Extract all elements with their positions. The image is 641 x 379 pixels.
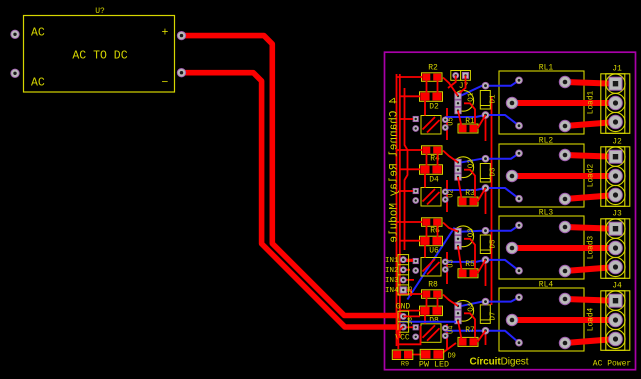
- wire long vertical trace 2: [399, 74, 401, 338]
- via RL1 coil pin bottom: [516, 122, 523, 129]
- pad J4 pin3: [609, 332, 623, 346]
- svg-text:D3: D3: [490, 167, 498, 177]
- wire cluster traces channel 4: [397, 294, 486, 342]
- wire thick trace RL1 COM to J1 pin2: [512, 100, 616, 106]
- pad Q2 emitter: [455, 174, 461, 180]
- wire blue coil trace top channel 3: [460, 225, 520, 232]
- via RL3 coil pin bottom: [516, 267, 523, 274]
- pad optocoupler pin right bottom: [442, 333, 448, 339]
- svg-text:R6: R6: [430, 227, 440, 236]
- pad RL2 NO contact: [559, 149, 570, 160]
- svg-text:J4: J4: [612, 282, 622, 291]
- svg-text:D7: D7: [490, 311, 498, 320]
- wire thick trace RL3 COM to J3 pin2: [512, 245, 616, 251]
- pad J6 VCC: [400, 324, 406, 330]
- relay RL1 outline: [499, 71, 584, 134]
- svg-text:AC TO DC: AC TO DC: [72, 50, 127, 63]
- svg-text:PW LED: PW LED: [419, 360, 449, 370]
- pad J2 pin1 square: [609, 150, 622, 163]
- pad optocoupler pin right top: [442, 189, 448, 195]
- svg-text:RL1: RL1: [539, 64, 554, 73]
- pad J3 pin2: [609, 241, 623, 255]
- svg-text:GND: GND: [396, 303, 411, 312]
- optocoupler IC channel 3: [421, 258, 441, 277]
- relay RL2 outline: [499, 144, 584, 207]
- wire red from via to transistor channel 4: [485, 331, 487, 345]
- svg-text:U5: U5: [448, 117, 456, 125]
- wire blue coil trace bottom channel 2: [445, 188, 519, 199]
- via RL2 coil pin top: [516, 150, 523, 157]
- wire long vertical trace 1: [396, 74, 398, 346]
- via D1 anode: [482, 82, 489, 89]
- wire thick trace RL2 COM to J2 pin2: [512, 173, 616, 179]
- pad optocoupler pin left bottom: [413, 198, 419, 204]
- svg-text:Load4: Load4: [588, 307, 596, 331]
- svg-text:D1: D1: [490, 94, 498, 104]
- svg-text:U4: U4: [448, 326, 456, 334]
- diode D7 outline: [480, 305, 490, 324]
- svg-text:R8: R8: [428, 281, 438, 290]
- svg-text:J3: J3: [612, 210, 622, 219]
- svg-text:R2: R2: [428, 64, 438, 73]
- svg-text:Q2: Q2: [468, 159, 476, 168]
- svg-text:J5: J5: [407, 286, 414, 294]
- pad RL2 COM contact: [506, 170, 517, 181]
- pad RL2 NC contact: [559, 193, 570, 204]
- wire long vertical trace 3: [491, 96, 493, 305]
- via RL4 coil pin bottom: [516, 339, 523, 346]
- pad optocoupler pin right bottom: [442, 125, 448, 131]
- pad IN1: [400, 257, 406, 263]
- pad RL4 NC contact: [559, 337, 570, 348]
- via D7 anode: [482, 298, 489, 305]
- svg-text:U?: U?: [95, 7, 105, 16]
- via D7 cathode: [482, 327, 489, 334]
- svg-text:D2: D2: [429, 102, 439, 111]
- AC-DC converter module U? outline: [24, 16, 175, 93]
- transistor Q3: [456, 226, 474, 247]
- via D1 cathode: [482, 112, 489, 119]
- pad RL1 COM contact: [506, 97, 517, 108]
- wire thick trace RL1 NC to J1 pin3: [565, 122, 616, 126]
- wire thick trace RL2 NC to J2 pin3: [565, 195, 616, 199]
- via RL2 coil pin bottom: [516, 195, 523, 202]
- wire J7 traces: [448, 75, 466, 93]
- pad optocoupler pin right top: [442, 117, 448, 123]
- wire red from via to transistor channel 2: [485, 188, 487, 214]
- pad RL4 NO contact: [559, 293, 570, 304]
- diode D4: [420, 165, 443, 175]
- pad Q3 collector: [455, 228, 461, 234]
- via D5 anode: [482, 227, 489, 234]
- wire blue coil trace bottom channel 1: [445, 115, 519, 126]
- svg-text:Load1: Load1: [588, 90, 596, 114]
- pad Q3 base: [455, 236, 461, 242]
- svg-text:CírcuitDigest: CírcuitDigest: [470, 357, 529, 368]
- svg-text:R4: R4: [430, 155, 440, 164]
- svg-text:IN1: IN1: [385, 257, 399, 265]
- pad J7 pin2: [463, 72, 469, 78]
- wire thick trace RL3 NO to J3 pin1: [565, 227, 616, 229]
- via D3 anode: [482, 155, 489, 162]
- wire thick trace RL2 NO to J2 pin1: [565, 155, 616, 157]
- via RL4 coil pin top: [516, 294, 523, 301]
- pad J6 GND: [400, 313, 406, 319]
- connector J2 outline: [601, 147, 630, 207]
- wire thick trace RL3 NC to J3 pin3: [565, 267, 616, 271]
- pad RL1 NC contact: [559, 120, 570, 131]
- header J7 outline: [451, 71, 471, 81]
- pad J2 pin2: [609, 169, 623, 183]
- wire thick trace RL1 NO to J1 pin1: [565, 82, 616, 84]
- pad optocoupler pin left top: [413, 325, 418, 330]
- wire thick trace RL4 COM to J4 pin2: [512, 317, 616, 323]
- svg-text:D4: D4: [429, 175, 439, 184]
- svg-text:+: +: [162, 27, 169, 40]
- pad J4 pin2: [609, 313, 623, 327]
- svg-text:R1: R1: [465, 117, 475, 126]
- via RL3 coil pin top: [516, 222, 523, 229]
- optocoupler IC channel 1: [421, 116, 441, 135]
- relay RL3 outline: [499, 216, 584, 279]
- wire thick +V trace from U? plus pin to board GND header: [182, 36, 403, 316]
- pad Q3 emitter: [455, 243, 461, 249]
- pad U? pin +: [177, 31, 185, 39]
- wire blue coil trace top channel 4: [460, 297, 520, 306]
- resistor R2: [422, 73, 443, 82]
- connector J1 outline: [601, 74, 630, 134]
- pad RL3 NC contact: [559, 265, 570, 276]
- wire blue coil trace top channel 2: [460, 153, 520, 162]
- wire IN header stubs: [403, 260, 414, 296]
- resistor R4: [422, 146, 443, 155]
- diode D5 outline: [480, 235, 490, 254]
- svg-text:IN3: IN3: [385, 277, 399, 285]
- diode D3 outline: [480, 164, 490, 183]
- svg-text:IN2: IN2: [385, 267, 399, 275]
- svg-text:4 Channel Relay Module: 4 Channel Relay Module: [388, 97, 400, 242]
- svg-text:D5: D5: [490, 239, 498, 249]
- wire vertical trace 4: [446, 108, 448, 349]
- resistor R1: [458, 124, 478, 133]
- resistor R5: [458, 269, 478, 278]
- svg-text:RL3: RL3: [539, 209, 554, 218]
- svg-text:J1: J1: [612, 65, 622, 74]
- pad J1 pin1 square: [609, 77, 622, 90]
- wire thick -V trace from U? minus pin to board VCC header: [182, 73, 403, 327]
- svg-text:J6: J6: [407, 317, 414, 325]
- pad J2 pin3: [609, 188, 623, 202]
- diode D1 outline: [480, 91, 490, 110]
- header IN1-IN4 outline: [398, 255, 409, 295]
- pad J1 pin3: [609, 115, 623, 129]
- pad optocoupler pin right top: [442, 259, 448, 265]
- LED D9: [420, 349, 444, 359]
- pad Q1 base: [455, 100, 461, 106]
- svg-text:Q1: Q1: [468, 92, 476, 102]
- svg-text:AC: AC: [31, 77, 45, 90]
- svg-text:R5: R5: [465, 260, 475, 269]
- pad Q1 emitter: [455, 107, 461, 113]
- pad Q2 collector: [455, 159, 461, 165]
- svg-text:Load2: Load2: [588, 163, 596, 187]
- resistor R6: [422, 218, 443, 227]
- diode D8: [420, 306, 443, 316]
- header J6 outline: [398, 311, 409, 332]
- wire long vertical trace 5: [405, 88, 408, 250]
- pad IN4 square: [400, 287, 406, 293]
- pad RL3 NO contact: [559, 221, 570, 232]
- via RL1 coil pin top: [516, 77, 523, 84]
- svg-text:Q3: Q3: [468, 228, 476, 238]
- pad RL3 COM contact: [506, 242, 517, 253]
- svg-text:Q4: Q4: [468, 302, 476, 312]
- pad RL4 COM contact: [506, 314, 517, 325]
- pad Q4 emitter: [455, 317, 461, 323]
- wire blue GND-VCC horizontal: [400, 321, 457, 323]
- pad optocoupler pin left bottom: [413, 268, 419, 274]
- pad J3 pin1 square: [609, 222, 622, 235]
- wire cluster traces channel 3: [397, 222, 486, 273]
- via D3 cathode: [482, 185, 489, 192]
- connector J4 outline: [601, 291, 630, 351]
- pad Q2 base: [455, 167, 461, 173]
- optocoupler IC channel 2: [421, 188, 441, 207]
- wire cluster traces channel 1: [397, 77, 486, 129]
- pad Q4 collector: [455, 303, 461, 309]
- svg-text:IN4: IN4: [385, 287, 399, 295]
- pad U? pin -: [177, 69, 185, 77]
- wire thick trace RL4 NC to J4 pin3: [565, 339, 616, 343]
- pad optocoupler pin left bottom: [413, 334, 419, 340]
- relay RL4 outline: [499, 288, 584, 351]
- wire cluster traces channel 2: [397, 150, 486, 202]
- svg-text:RL4: RL4: [539, 281, 554, 290]
- pad J4 pin1 square: [609, 294, 622, 307]
- wire thick trace RL4 NO to J4 pin1: [565, 299, 616, 301]
- svg-text:Load3: Load3: [588, 235, 596, 259]
- pad Q4 base: [455, 310, 461, 316]
- connector J3 outline: [601, 219, 630, 278]
- wire blue coil trace top channel 1: [460, 80, 520, 96]
- svg-text:R7: R7: [465, 326, 475, 335]
- svg-text:AC Power: AC Power: [593, 360, 632, 369]
- pad IN2: [400, 267, 406, 273]
- wire blue coil trace bottom channel 4: [445, 331, 519, 343]
- pad J1 pin2: [609, 96, 623, 110]
- wire red from via to transistor channel 3: [485, 260, 487, 286]
- pad RL1 NO contact: [559, 76, 570, 87]
- svg-text:RL2: RL2: [539, 137, 554, 146]
- pad optocoupler pin left top: [413, 258, 418, 263]
- svg-text:R3: R3: [465, 189, 475, 198]
- pad J3 pin3: [609, 260, 623, 274]
- diode U6: [420, 236, 443, 246]
- wire GND VCC traces: [398, 316, 456, 354]
- svg-text:U6: U6: [429, 247, 439, 256]
- pad optocoupler pin right bottom: [442, 197, 448, 203]
- wire red from via to transistor channel 1: [485, 115, 487, 141]
- transistor Q1: [456, 90, 474, 111]
- resistor R7: [458, 337, 478, 346]
- pad optocoupler pin right bottom: [442, 267, 448, 273]
- svg-text:−: −: [162, 77, 169, 90]
- pad U? pin AC top: [11, 30, 19, 38]
- svg-text:AC: AC: [31, 27, 45, 40]
- svg-text:U2: U2: [448, 189, 456, 197]
- transistor Q4: [456, 300, 474, 321]
- PCB board outline: [385, 52, 636, 370]
- diode D2: [420, 92, 443, 102]
- resistor R3: [458, 197, 478, 206]
- resistor R8: [422, 290, 443, 299]
- wire blue coil trace bottom channel 3: [445, 260, 519, 271]
- pad optocoupler pin left top: [413, 116, 418, 121]
- pad U? pin AC bottom: [11, 69, 19, 77]
- resistor R9: [392, 350, 413, 360]
- svg-text:R9: R9: [401, 361, 409, 369]
- via D5 cathode: [482, 257, 489, 264]
- svg-text:U3: U3: [448, 259, 456, 267]
- pad Q1 collector: [455, 93, 461, 99]
- pad optocoupler pin left bottom: [413, 126, 419, 132]
- svg-text:J2: J2: [612, 138, 622, 147]
- pad IN3: [400, 277, 406, 283]
- transistor Q2: [456, 157, 474, 178]
- pad optocoupler pin left top: [413, 188, 418, 193]
- optocoupler IC channel 4: [421, 324, 441, 343]
- pad J7 pin1: [453, 72, 459, 78]
- wire blue diagonal IN4 to channel3: [407, 228, 454, 300]
- pad optocoupler pin right top: [442, 325, 448, 331]
